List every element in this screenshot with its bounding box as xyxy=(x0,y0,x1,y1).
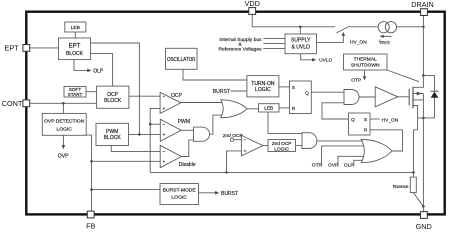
svg-text:OSCILLATOR: OSCILLATOR xyxy=(167,57,196,63)
wire SOFT START to OCP BLOCK xyxy=(86,91,97,93)
block TURN-ON LOGIC xyxy=(247,76,279,97)
svg-text:OVP: OVP xyxy=(328,162,338,168)
wire EPT BLOCK out2 down into OCP BLOCK top xyxy=(91,54,113,87)
wire LEB to EPT BLOCK xyxy=(74,32,76,38)
pin DRAIN xyxy=(421,9,428,16)
plus mark Disable comparator xyxy=(163,160,165,162)
wire 2nd OCP comparator + input riser to sense line xyxy=(227,151,242,173)
svg-text:FB: FB xyxy=(86,222,95,231)
comparator PWM xyxy=(160,119,181,141)
svg-text:Q: Q xyxy=(305,91,309,97)
arrowhead BURST output right xyxy=(215,191,219,195)
svg-text:OVP DETECTION: OVP DETECTION xyxy=(44,118,85,124)
wire Rsense bottom diagonal to GND line xyxy=(413,193,423,207)
current source I DD(ch) circle left xyxy=(378,22,389,33)
node junction sense line / Rsense xyxy=(412,171,415,174)
arrowhead OLP xyxy=(87,69,91,73)
MOSFET gate bar xyxy=(408,89,410,106)
IC package border xyxy=(26,12,444,215)
gate OR2 protection xyxy=(361,140,392,163)
block PWM BLOCK xyxy=(96,123,129,145)
switch blade HV_ON xyxy=(336,26,350,33)
svg-text:START: START xyxy=(68,92,83,97)
svg-text:Q: Q xyxy=(351,117,355,123)
wire latch2 S input HV_ON xyxy=(370,118,380,120)
wire OSCILLATOR to TURN-ON LOGIC xyxy=(183,69,247,80)
wire PWM BLOCK bottom to Disable comparator - input xyxy=(111,146,160,152)
pin CONT xyxy=(23,100,30,107)
latch U2 SR flip-flop HV_ON xyxy=(349,113,371,135)
MOSFET body arrow xyxy=(417,92,422,96)
wire switch to current source xyxy=(350,26,378,28)
block EPT BLOCK xyxy=(59,38,91,60)
svg-text:BLOCK: BLOCK xyxy=(66,51,84,57)
wire branch down to SUPPLY & UVLO xyxy=(299,27,301,34)
comparator OCP xyxy=(160,92,181,113)
svg-text:PWM: PWM xyxy=(178,119,190,125)
current source I DD(ch) circle right xyxy=(385,22,396,33)
pin EPT xyxy=(23,45,30,52)
svg-text:SUPPLY: SUPPLY xyxy=(291,38,311,44)
comparator 2nd OCP xyxy=(241,135,263,156)
wire OR1 output to LEB2 xyxy=(247,108,259,110)
svg-text:LEB: LEB xyxy=(264,106,273,112)
node junction drain rail top xyxy=(422,26,425,29)
svg-text:BURST: BURST xyxy=(221,191,238,197)
node junction CONT/OVP xyxy=(62,102,65,105)
svg-text:2nd OCP: 2nd OCP xyxy=(223,133,243,139)
wire OCP BLOCK to OCP comparator - input xyxy=(129,95,160,97)
svg-text:BLOCK: BLOCK xyxy=(104,135,122,141)
svg-text:& UVLO: & UVLO xyxy=(291,44,310,50)
wire MOSFET drain stub xyxy=(413,75,423,87)
svg-text:Reference Voltages: Reference Voltages xyxy=(218,47,262,53)
wire OTP arrow from THERMAL SHUTDOWN xyxy=(364,70,366,77)
wire latch2 Q loop to AND3 lower input xyxy=(322,103,349,119)
svg-text:LOGIC: LOGIC xyxy=(255,87,271,93)
wire OTP stub to OR2 input 2 xyxy=(322,146,368,167)
arrowhead OVP down xyxy=(62,145,66,149)
wire FB line from OVP DETECTION LOGIC down to FB pin xyxy=(86,135,91,211)
svg-text:OLP: OLP xyxy=(344,162,354,168)
wire FB branch to BURST-MODE LOGIC input xyxy=(92,189,161,191)
svg-text:OLP: OLP xyxy=(93,69,104,75)
plus mark PWM comparator xyxy=(163,133,165,135)
wire OCP comparator + input down to sense line xyxy=(150,108,160,172)
svg-text:DRAIN: DRAIN xyxy=(411,0,434,9)
arrowhead UVLO right xyxy=(312,58,316,62)
arrowhead OTP down xyxy=(363,76,367,80)
wire 2nd OCP LOGIC to 2nd-OCP AND lower input xyxy=(296,145,303,147)
comparator Disable xyxy=(160,145,181,167)
wire thermal sense diagonal xyxy=(387,70,419,82)
node junction VDD/supply xyxy=(299,26,302,29)
svg-text:OVP: OVP xyxy=(58,153,69,159)
wire supply bus line 2 xyxy=(263,42,285,44)
svg-text:UVLO: UVLO xyxy=(319,58,332,64)
wire CONT branch to OVP DETECTION LOGIC xyxy=(62,103,64,113)
pin GND xyxy=(421,212,428,219)
wire 2nd OCP terminal to comparator - input xyxy=(234,139,242,141)
block OCP BLOCK xyxy=(97,86,129,108)
wire diode to source node xyxy=(418,97,435,118)
current source I DD(ch) white backing xyxy=(378,22,396,33)
gate driver buffer xyxy=(375,87,398,107)
minus mark PWM comparator xyxy=(163,123,165,125)
node junction source node xyxy=(422,117,425,120)
block THERMAL SHUTDOWN xyxy=(344,54,388,70)
svg-text:2nd OCP: 2nd OCP xyxy=(272,141,292,147)
node junction GND/Rsense xyxy=(422,205,425,208)
svg-text:OCP: OCP xyxy=(171,93,183,99)
wire TURN-ON LOGIC to latch1 S input xyxy=(279,86,290,88)
wire 2nd-OCP AND output to OR2 input 1 xyxy=(317,140,367,142)
pin VDD xyxy=(249,8,256,15)
wire BURST-MODE LOGIC output arrow xyxy=(199,192,217,194)
gate AND2 pwm-disable xyxy=(194,127,210,141)
transistor Q1 power MOSFET xyxy=(409,87,413,108)
svg-text:BLOCK: BLOCK xyxy=(104,98,122,104)
arrowhead HV_ON up xyxy=(342,32,346,36)
block OSCILLATOR xyxy=(166,48,198,69)
wire IDD(ch) arrow shaft xyxy=(383,35,392,38)
svg-text:GND: GND xyxy=(416,222,432,231)
block BURST-MODE LOGIC xyxy=(160,184,199,205)
gate AND4 2nd-OCP xyxy=(302,133,317,149)
MOSFET channel bar xyxy=(412,87,414,108)
svg-text:VDD: VDD xyxy=(245,0,260,8)
block LEB (top) xyxy=(65,22,86,32)
wire branch to PWM comparator - input xyxy=(150,123,160,125)
node junction FB/burst-mode xyxy=(90,188,93,191)
svg-text:CONT: CONT xyxy=(2,99,23,108)
wire CONT pin to OCP BLOCK xyxy=(30,102,97,104)
wire supply bus line 1 xyxy=(263,37,285,39)
wire LEB2 bottom to 2nd-OCP AND top input xyxy=(268,112,302,133)
wire gate driver to MOSFET gate xyxy=(397,96,409,98)
wire current source to drain rail xyxy=(396,26,423,28)
svg-text:BURST-MODE: BURST-MODE xyxy=(163,188,197,194)
block 2nd OCP LOGIC xyxy=(268,140,296,152)
wire AND2 output up to OR1 lower input xyxy=(210,115,226,134)
node junction EPT line joins PWM block output xyxy=(138,133,141,136)
wire supply bus line 3 xyxy=(263,48,285,50)
svg-text:Rsense: Rsense xyxy=(393,184,409,189)
block SUPPLY & UVLO xyxy=(285,34,317,54)
minus mark OCP comparator xyxy=(163,95,165,97)
svg-text:EPT: EPT xyxy=(69,44,81,50)
wire 2nd OCP comparator to 2nd OCP LOGIC xyxy=(263,145,269,147)
wire MOSFET body stub xyxy=(413,93,423,95)
svg-text:OCP: OCP xyxy=(107,92,119,98)
minus mark 2nd OCP comparator xyxy=(244,139,246,141)
wire LEB2 to latch1 R input xyxy=(279,107,290,109)
svg-text:HV_ON: HV_ON xyxy=(382,118,399,124)
node junction sense/2nd OCP xyxy=(225,171,228,174)
wire PWM comparator output to AND2 xyxy=(180,129,193,131)
wire latch1 Q output to AND3 top input xyxy=(311,91,344,93)
pin FB xyxy=(87,211,94,218)
svg-text:LOGIC: LOGIC xyxy=(57,126,73,132)
node junction FB/Disable xyxy=(90,160,93,163)
wire BURST label to TURN-ON LOGIC xyxy=(231,90,247,92)
svg-text:OTP: OTP xyxy=(312,162,322,168)
wire source node down to GND pin xyxy=(422,94,424,212)
wire Disable comparator output up to AND2 lower input xyxy=(181,140,194,157)
svg-text:PWM: PWM xyxy=(106,129,118,135)
svg-text:R: R xyxy=(364,127,368,133)
wire HV_ON control arrow to switch xyxy=(317,34,344,42)
wire MOSFET sense tap down to Rsense xyxy=(413,106,417,178)
gate OR1 xyxy=(221,100,248,118)
diode D1 body diode xyxy=(430,91,438,98)
wire OVP detection output arrow xyxy=(62,135,64,146)
svg-text:IDD(ch): IDD(ch) xyxy=(379,39,390,45)
wire UVLO output xyxy=(301,54,313,60)
wire OLP output from EPT BLOCK xyxy=(74,60,89,71)
wire diode branch from drain rail xyxy=(423,75,434,91)
latch U1 SR flip-flop xyxy=(290,81,312,114)
node junction drain/diode xyxy=(422,74,425,77)
svg-text:OTP: OTP xyxy=(351,78,361,84)
wire EPT pin to EPT BLOCK xyxy=(30,47,59,49)
plus mark 2nd OCP comparator xyxy=(244,150,246,152)
svg-text:Disable: Disable xyxy=(179,162,196,168)
gate AND3 pre-driver xyxy=(344,90,359,105)
wire PWM BLOCK output to PWM comparator + input xyxy=(129,133,161,135)
wire MOSFET source stub xyxy=(413,99,423,101)
arrowhead IDD(ch) left xyxy=(380,35,384,38)
svg-text:HV_ON: HV_ON xyxy=(350,40,367,46)
block LEB (mid) xyxy=(259,104,280,112)
block OVP DETECTION LOGIC xyxy=(42,113,86,135)
svg-text:LEB: LEB xyxy=(71,25,80,31)
node junction on sense riser xyxy=(149,123,152,126)
svg-text:LOGIC: LOGIC xyxy=(172,195,188,201)
wire DRAIN pin down the drain rail xyxy=(422,15,424,75)
terminal circle 2nd OCP input xyxy=(230,138,233,141)
minus mark Disable comparator xyxy=(163,151,165,153)
wire OVP stub to OR2 input 3 xyxy=(338,156,366,166)
wire EPT BLOCK out1 down to PWM comparator + node xyxy=(91,43,140,134)
svg-text:LOGIC: LOGIC xyxy=(274,146,289,152)
svg-text:R: R xyxy=(292,106,296,112)
block SOFT START xyxy=(64,87,86,98)
wire VDD drop and top rail to switch xyxy=(252,14,335,26)
wire current sense line xyxy=(150,171,413,173)
wire FB branch to Disable comparator + input xyxy=(92,160,161,162)
arrowheads group below xyxy=(62,32,392,195)
wire OLP stub to OR2 input 4 xyxy=(354,160,364,166)
svg-text:EPT: EPT xyxy=(5,43,20,52)
wire OR2 output to latch2 R input xyxy=(370,130,403,151)
wire OCP comparator output to OR1 xyxy=(180,102,225,104)
resistor Rsense xyxy=(410,177,416,193)
svg-text:THERMAL: THERMAL xyxy=(354,56,377,62)
svg-text:BURST: BURST xyxy=(213,89,230,95)
wire AND3 output to gate driver xyxy=(359,96,375,98)
plus mark OCP comparator xyxy=(163,107,165,109)
svg-text:SHUTDOWN: SHUTDOWN xyxy=(351,63,380,69)
